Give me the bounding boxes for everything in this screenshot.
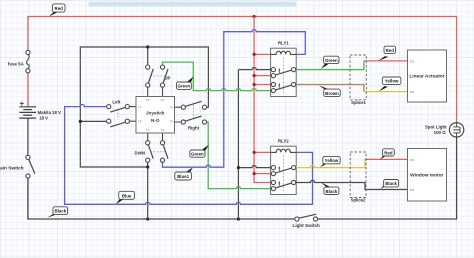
relay RLY2	[271, 138, 297, 194]
junction ground net top	[146, 45, 149, 48]
junction ground net bottom	[146, 165, 149, 168]
splice Splice2	[350, 152, 366, 203]
svg-text:Black: Black	[326, 189, 338, 194]
svg-text:Black: Black	[385, 181, 397, 186]
label Yellow Linear Actuator	[379, 77, 401, 91]
svg-text:P1: P1	[410, 59, 414, 63]
svg-text:Yellow: Yellow	[385, 79, 399, 84]
label Yellow RLY2 out	[320, 156, 340, 167]
svg-text:T2: T2	[161, 128, 165, 132]
label Black Window motor	[380, 180, 398, 189]
wire green RLY1 to Splice1	[296, 61, 364, 70]
label Green near UP	[177, 77, 194, 90]
label Red top left	[49, 4, 65, 17]
svg-text:Blue1: Blue1	[177, 174, 190, 179]
wire yellow RLY2 to Splice2	[296, 159, 365, 167]
motor M1 Linear Actuator	[408, 50, 447, 102]
wire brown RLY1 to Splice1	[296, 85, 364, 92]
label Green near Right switch	[190, 145, 209, 157]
svg-text:100 Ω: 100 Ω	[434, 130, 447, 135]
svg-text:Light Switch: Light Switch	[293, 223, 320, 228]
svg-text:T4: T4	[169, 106, 173, 110]
svg-text:Green: Green	[325, 58, 338, 63]
svg-text:T3: T3	[169, 120, 173, 124]
wire blue Left switch to RLY2 coil	[65, 104, 313, 204]
svg-text:UP: UP	[164, 75, 170, 80]
switch Right	[181, 101, 206, 130]
svg-text:T6: T6	[161, 98, 165, 102]
svg-text:Main Switch: Main Switch	[0, 165, 24, 171]
relay RLY1	[271, 40, 297, 96]
svg-text:P2: P2	[410, 90, 414, 94]
junction black feed RLY2	[237, 166, 240, 169]
svg-text:T1: T1	[146, 128, 150, 132]
junction ground rail left	[146, 217, 149, 220]
splice Splice1	[350, 55, 366, 105]
label Blue1 near DWN	[175, 167, 193, 180]
svg-text:Right: Right	[188, 125, 200, 130]
svg-text:T5: T5	[146, 98, 150, 102]
label Blue	[116, 191, 135, 204]
junction red rail	[253, 15, 256, 18]
wire black negative rail	[28, 178, 295, 219]
main switch	[0, 155, 35, 178]
svg-text:Left: Left	[112, 100, 121, 105]
motor M2 Window motor	[408, 149, 447, 202]
svg-text:N-O: N-O	[151, 118, 160, 123]
svg-text:Green: Green	[178, 84, 191, 89]
wire red Splice1 to P1	[364, 60, 408, 62]
label Brown RLY1 out	[319, 85, 340, 96]
wire green UP to RLY1	[163, 62, 272, 91]
wire green Right to RLY2	[207, 122, 272, 189]
svg-text:18 V: 18 V	[39, 116, 48, 121]
label Red Window motor	[380, 149, 394, 160]
svg-text:Makita 18 V: Makita 18 V	[38, 110, 62, 115]
svg-text:Yellow: Yellow	[325, 158, 339, 163]
svg-text:DWN: DWN	[135, 150, 146, 155]
wire yellow Splice1 to P2	[364, 91, 408, 93]
svg-text:Spot Light: Spot Light	[425, 125, 447, 130]
junctions red relay feed	[253, 53, 256, 175]
svg-text:RLY1: RLY1	[278, 40, 289, 45]
svg-text:Green: Green	[191, 152, 204, 157]
joystick U1	[130, 87, 182, 140]
svg-text:Red: Red	[384, 151, 393, 156]
wire red fuse to top rail to lamp	[28, 17, 457, 123]
battery BT1 Makita 18 V	[19, 102, 36, 156]
svg-text:Red: Red	[55, 6, 64, 11]
switch UP	[146, 65, 171, 87]
label Black bottom left	[47, 207, 67, 218]
switch Left	[107, 100, 130, 127]
svg-text:P2: P2	[410, 188, 414, 192]
svg-text:Window motor: Window motor	[410, 173, 443, 179]
wire black RLY2 to Splice2 to P2	[296, 180, 408, 189]
label Green RLY1 out	[321, 56, 339, 69]
svg-text:Blue: Blue	[122, 193, 132, 198]
wire red Splice2 to P1	[365, 158, 408, 160]
svg-text:Red: Red	[386, 48, 395, 53]
svg-text:Splice1: Splice1	[351, 100, 366, 105]
svg-text:Black: Black	[54, 209, 66, 214]
ground net switch commons	[80, 47, 208, 219]
svg-text:RLY2: RLY2	[278, 138, 289, 143]
svg-text:T7: T7	[138, 105, 142, 109]
wire black RLY contacts feed	[238, 68, 271, 219]
svg-text:T8: T8	[138, 119, 142, 123]
switch DWN	[135, 141, 168, 163]
label Black RLY2 out	[321, 182, 339, 194]
junction ground net left	[79, 120, 82, 123]
wire red battery to fuse	[27, 73, 29, 107]
label Red Linear Actuator	[378, 46, 396, 61]
svg-text:Splice2: Splice2	[351, 198, 366, 203]
wire blue DWN to RLY1 coil	[163, 30, 306, 168]
svg-text:Joystick: Joystick	[146, 111, 165, 116]
fuse F1 fuse 5A	[8, 50, 30, 73]
lamp Spot Light 100 ohm	[425, 123, 464, 137]
svg-text:Brown: Brown	[325, 91, 339, 96]
wire red relay feed	[254, 17, 271, 183]
svg-text:Linear Actuator: Linear Actuator	[409, 74, 444, 80]
wire black rail lamp side	[318, 137, 457, 219]
junction ground rail right	[237, 217, 240, 220]
svg-text:P1: P1	[410, 158, 414, 162]
selection highlight bar	[89, 2, 297, 7]
svg-text:fuse 5A: fuse 5A	[8, 61, 25, 66]
light switch	[293, 214, 320, 228]
